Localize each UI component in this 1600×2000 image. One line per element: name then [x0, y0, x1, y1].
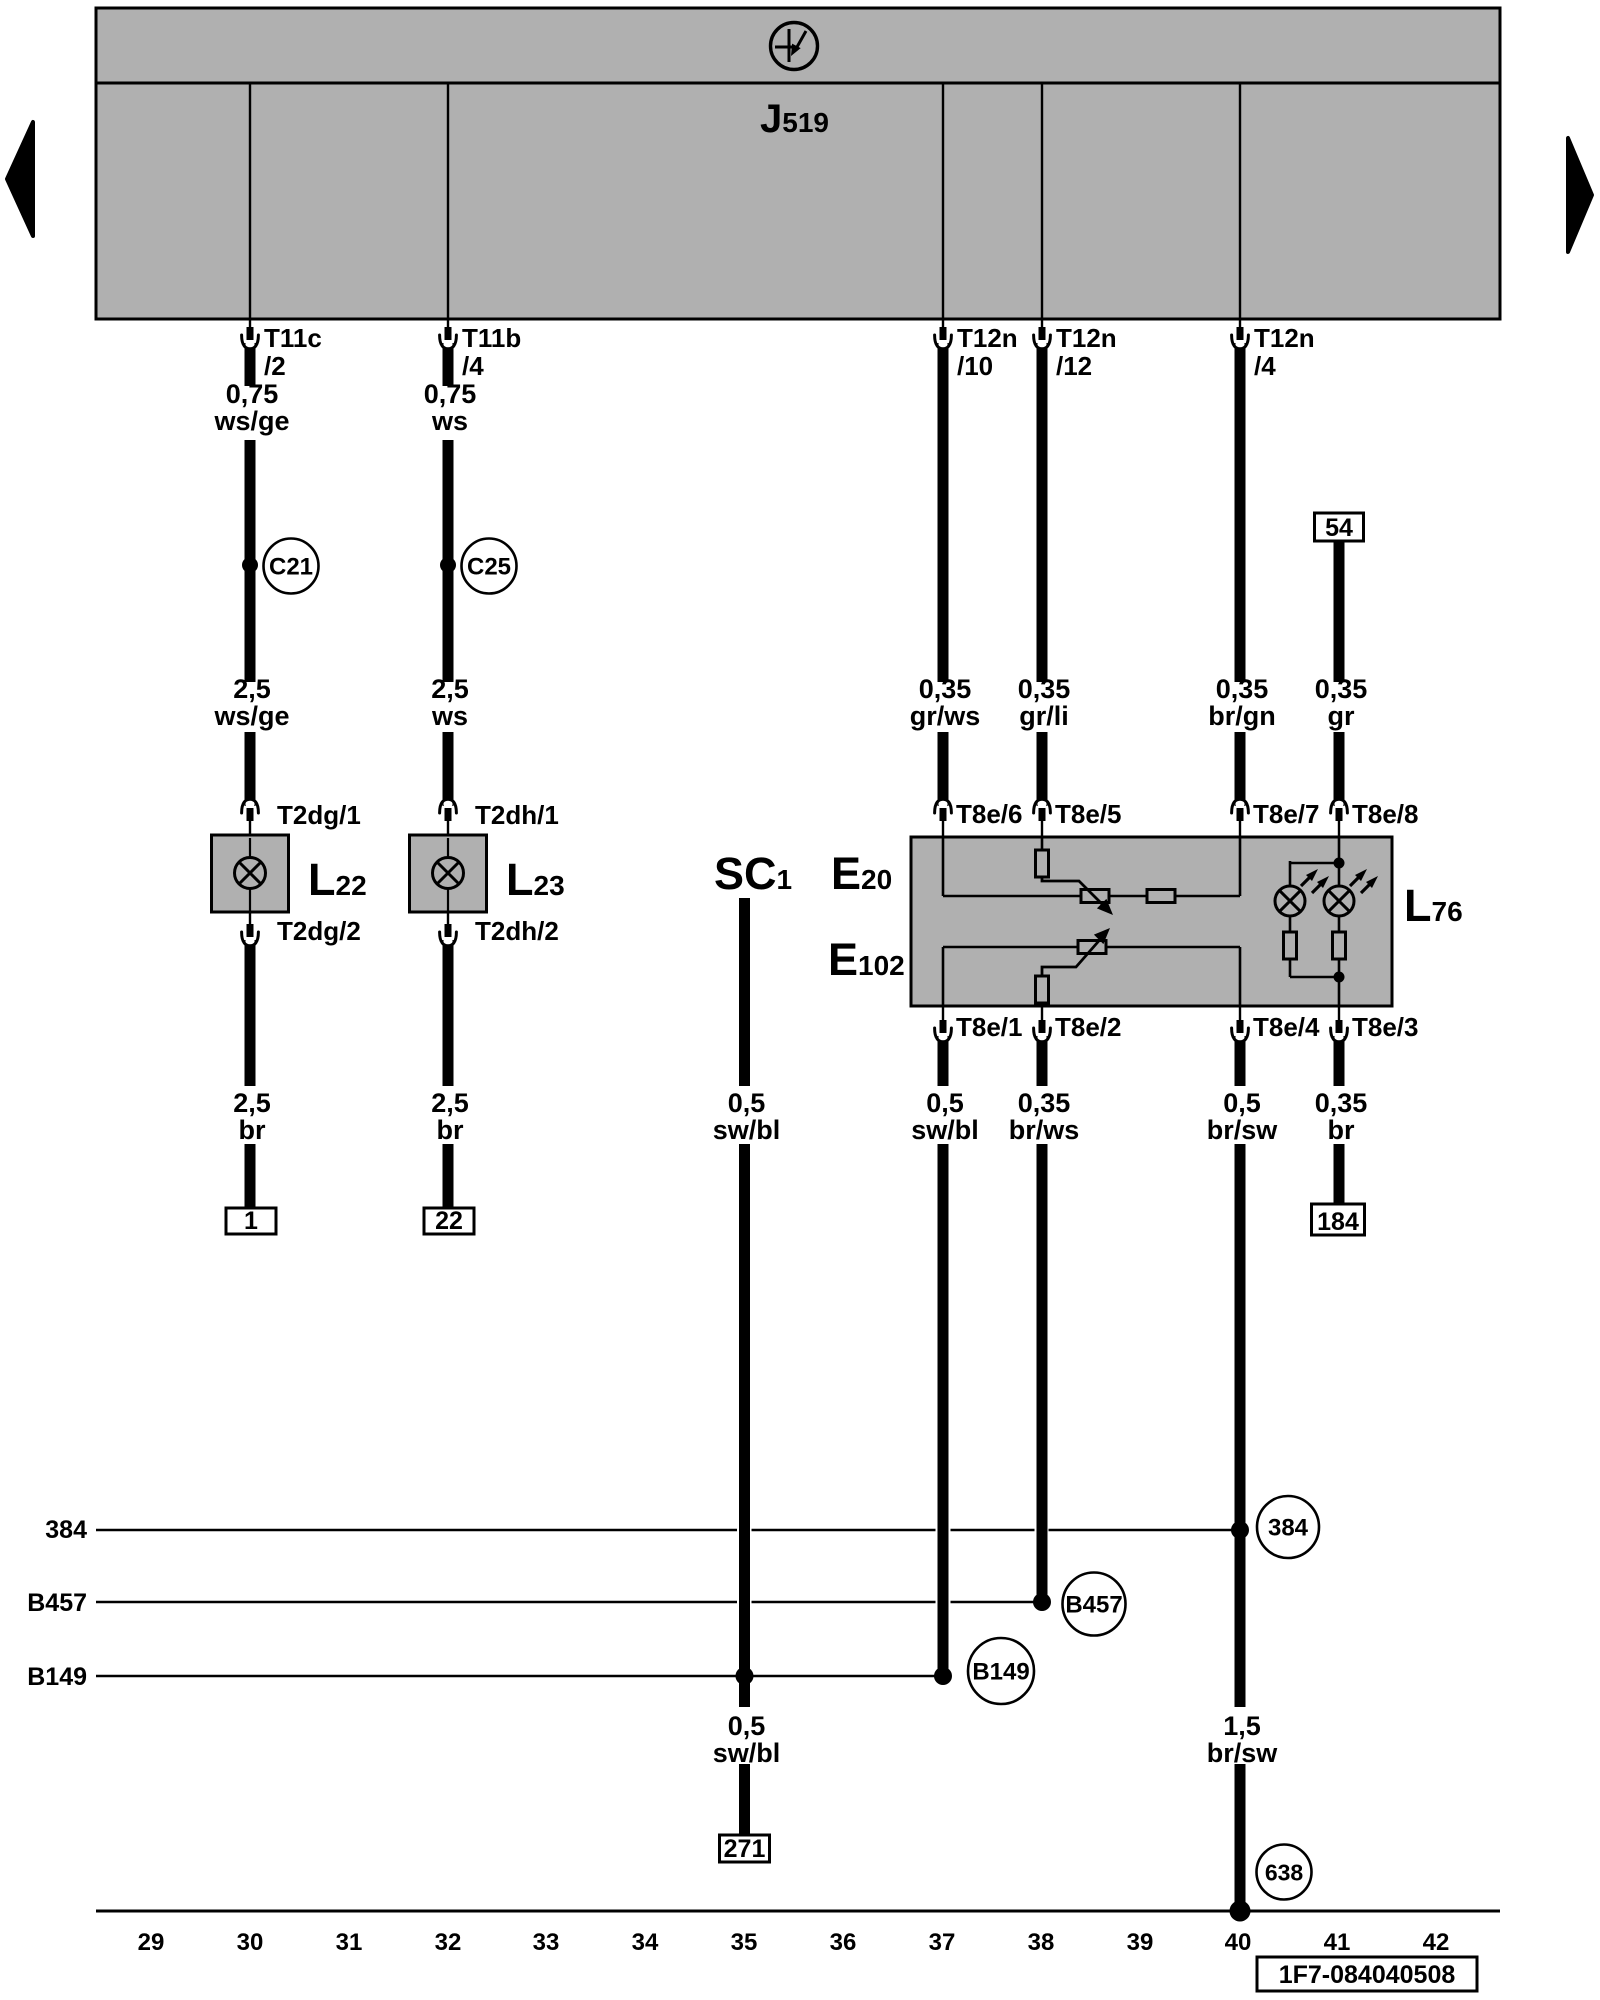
- net circle 384: [1257, 1496, 1319, 1558]
- svg-text:0,35: 0,35: [919, 674, 972, 704]
- potentiometer track E102: [1078, 941, 1106, 954]
- svg-text:30: 30: [237, 1929, 264, 1956]
- resistor E20 series: [1147, 890, 1175, 903]
- svg-text:C25: C25: [467, 554, 511, 581]
- wiper arm E20: [1042, 877, 1107, 909]
- svg-text:gr: gr: [1328, 701, 1355, 731]
- lead into L22: [249, 819, 251, 838]
- wire br col41 to ground: [1334, 1144, 1345, 1204]
- wire label 2,5 br col32: [431, 1088, 469, 1145]
- wire br col32: [443, 940, 454, 1086]
- svg-text:0,5: 0,5: [728, 1711, 766, 1741]
- wire label 0,5 sw/bl col35: [713, 1088, 781, 1145]
- junction net B457: [1033, 1593, 1051, 1611]
- connector T8e/8: [1331, 799, 1348, 821]
- lead from L23 to pin: [447, 912, 449, 926]
- svg-text:ws/ge: ws/ge: [213, 406, 289, 436]
- wire label 2,5 ws: [431, 674, 469, 731]
- wire sw/bl col37 lower: [938, 1144, 949, 1676]
- svg-text:0,35: 0,35: [1018, 674, 1071, 704]
- svg-text:0,5: 0,5: [728, 1088, 766, 1118]
- J519 pin line col40: [1239, 83, 1241, 330]
- ground terminal 271: [720, 1835, 770, 1863]
- J519 pin line col37: [942, 83, 944, 330]
- wire br col30: [245, 940, 256, 1086]
- svg-text:0,75: 0,75: [226, 379, 279, 409]
- junction net B149 col35: [736, 1667, 754, 1685]
- svg-text:0,75: 0,75: [424, 379, 477, 409]
- svg-text:1,5: 1,5: [1223, 1711, 1261, 1741]
- svg-text:22: 22: [435, 1207, 463, 1235]
- connector T8e/4: [1232, 1020, 1249, 1042]
- L76 lead from T8e/8: [1338, 838, 1341, 863]
- wiper lead from T8e/2: [1041, 1003, 1044, 1006]
- svg-text:br: br: [239, 1115, 266, 1145]
- L76 left bottom lead: [1289, 959, 1292, 977]
- junction C25: [440, 557, 456, 573]
- connector T11b/4: [440, 327, 457, 349]
- svg-text:29: 29: [138, 1929, 165, 1956]
- lead T8e/7 into switch box: [1239, 819, 1241, 838]
- lamp symbol L76 left: [1275, 886, 1305, 916]
- svg-text:/12: /12: [1056, 351, 1092, 381]
- LED arrows left lamp: [1301, 869, 1329, 893]
- svg-text:T8e/2: T8e/2: [1055, 1012, 1122, 1042]
- wire br col32 to ground: [443, 1144, 454, 1208]
- connector T2dg/1: [242, 799, 259, 821]
- wire label 0,5 sw/bl col35 lower: [713, 1711, 781, 1768]
- svg-text:sw/bl: sw/bl: [911, 1115, 979, 1145]
- E20 net lead from T8e/7: [1239, 838, 1242, 896]
- svg-text:384: 384: [45, 1516, 87, 1544]
- wire sw/bl col35 mid: [739, 1144, 750, 1707]
- svg-text:T2dh/2: T2dh/2: [475, 916, 559, 946]
- connector T8e/3: [1331, 1020, 1348, 1042]
- connector T8e/6: [935, 799, 952, 821]
- net circle 638: [1257, 1845, 1312, 1900]
- wire label 0,75 ws/ge: [213, 379, 289, 436]
- bus symbol (circled K): [771, 23, 818, 70]
- ruler scale numbers: [138, 1929, 1450, 1956]
- resistor L76 right: [1333, 932, 1346, 959]
- svg-text:ws/ge: ws/ge: [213, 701, 289, 731]
- svg-text:T8e/8: T8e/8: [1352, 799, 1419, 829]
- svg-text:T12n: T12n: [957, 323, 1018, 353]
- switch module box E20/E102/L76: [911, 837, 1392, 1006]
- svg-text:0,5: 0,5: [926, 1088, 964, 1118]
- lead T8e/6 into switch box: [942, 819, 944, 838]
- svg-text:39: 39: [1127, 1929, 1154, 1956]
- L76 bottom bridge: [1290, 976, 1339, 979]
- lamp symbol L76 right: [1324, 886, 1354, 916]
- svg-text:638: 638: [1265, 1860, 1304, 1886]
- wire label 0,35 gr/ws: [910, 674, 981, 731]
- lead to lamp L22: [249, 838, 251, 858]
- wire label 0,35 br/gn: [1208, 674, 1276, 731]
- svg-text:2,5: 2,5: [431, 1088, 469, 1118]
- connector circle C25: [462, 539, 517, 594]
- connector T12n col40: [1232, 327, 1249, 349]
- J519 inner divider line: [96, 82, 1500, 85]
- left direction arrow: [7, 122, 33, 236]
- lamp symbol L22: [235, 858, 266, 889]
- svg-text:br/sw: br/sw: [1207, 1115, 1279, 1145]
- svg-text:31: 31: [336, 1929, 363, 1956]
- net circle B149: [968, 1638, 1034, 1704]
- wire br/ws col38 lower: [1037, 1144, 1048, 1602]
- svg-text:/4: /4: [1254, 351, 1276, 381]
- svg-text:38: 38: [1028, 1929, 1055, 1956]
- wire sw/bl col37 upper: [938, 1036, 949, 1086]
- svg-text:2,5: 2,5: [233, 674, 271, 704]
- wire label 0,35 gr/li: [1018, 674, 1071, 731]
- lead T8e/5 into switch box: [1041, 819, 1043, 838]
- svg-text:B149: B149: [27, 1663, 87, 1691]
- svg-text:384: 384: [1268, 1515, 1309, 1542]
- lead T8e/3 out of switch box: [1338, 1006, 1340, 1022]
- svg-text:B149: B149: [972, 1659, 1029, 1686]
- terminal 54 box: [1315, 513, 1364, 542]
- E102 net horizontal: [943, 946, 1078, 949]
- connector T8e/5: [1034, 799, 1051, 821]
- junction rail col40: [1230, 1901, 1251, 1922]
- wire ws col32 upper: [443, 343, 454, 386]
- resistor L76 left: [1284, 932, 1297, 959]
- J519 pin line col30: [249, 83, 251, 330]
- svg-text:32: 32: [435, 1929, 462, 1956]
- ground terminal 22: [424, 1207, 474, 1235]
- wire label 0,75 ws: [424, 379, 477, 436]
- wire ws/ge col30 upper: [245, 343, 256, 386]
- svg-text:T8e/3: T8e/3: [1352, 1012, 1419, 1042]
- connector T12n col37: [935, 327, 952, 349]
- wire gr/li to E-box: [1037, 732, 1048, 806]
- svg-text:T2dg/1: T2dg/1: [277, 800, 361, 830]
- L76 top bridge: [1290, 862, 1339, 865]
- wiper arm E102: [1042, 935, 1104, 976]
- net B457 line: [96, 1601, 737, 1603]
- lamp symbol L23: [433, 858, 464, 889]
- wire sw/bl col35 to ground: [739, 1764, 750, 1835]
- lead T8e/8 into switch box: [1338, 819, 1340, 838]
- connector T12n col38: [1034, 327, 1051, 349]
- svg-text:36: 36: [830, 1929, 857, 1956]
- wire gr col41 to E-box: [1334, 732, 1345, 806]
- svg-text:T12n: T12n: [1056, 323, 1117, 353]
- wire label 0,35 br/ws: [1009, 1088, 1080, 1145]
- E20 net lead from T8e/6: [942, 838, 945, 896]
- wiper lead from T8e/5: [1041, 838, 1044, 850]
- wire label 0,35 gr: [1315, 674, 1368, 731]
- svg-text:40: 40: [1225, 1929, 1252, 1956]
- svg-text:1: 1: [244, 1207, 258, 1235]
- wire label 0,5 sw/bl col37: [911, 1088, 979, 1145]
- wire br col41 upper: [1334, 1036, 1345, 1086]
- junction net B149 col37: [934, 1667, 952, 1685]
- connector T2dh/1: [440, 799, 457, 821]
- right direction arrow: [1568, 138, 1592, 252]
- wire ws/ge col30 lower: [245, 732, 256, 806]
- E102 net lead to T8e/4: [1239, 947, 1242, 1006]
- svg-text:35: 35: [731, 1929, 758, 1956]
- svg-text:T2dh/1: T2dh/1: [475, 800, 559, 830]
- svg-text:T12n: T12n: [1254, 323, 1315, 353]
- resistor on T8e/2 wiper: [1036, 976, 1049, 1003]
- LED arrows right lamp: [1350, 869, 1378, 893]
- connector T8e/1: [935, 1020, 952, 1042]
- wire br/gn to E-box: [1235, 732, 1246, 806]
- svg-text:br/gn: br/gn: [1208, 701, 1276, 731]
- L76 right resistor lead: [1338, 916, 1341, 932]
- svg-text:37: 37: [929, 1929, 956, 1956]
- lamp L22 box: [212, 835, 289, 912]
- junction net 384: [1231, 1521, 1249, 1539]
- wire label 0,35 br: [1315, 1088, 1368, 1145]
- connector T11c/2: [242, 327, 259, 349]
- wire label 2,5 br: [233, 1088, 271, 1145]
- svg-text:41: 41: [1324, 1929, 1351, 1956]
- lead T8e/1 out of switch box: [942, 1006, 944, 1022]
- ground terminal 184: [1312, 1204, 1365, 1236]
- L76 left lamp lead: [1289, 861, 1292, 886]
- connector T8e/2: [1034, 1020, 1051, 1042]
- lead T8e/4 out of switch box: [1239, 1006, 1241, 1022]
- svg-text:184: 184: [1317, 1208, 1359, 1236]
- svg-text:B457: B457: [1065, 1592, 1122, 1619]
- svg-text:/10: /10: [957, 351, 993, 381]
- lead from L22 to pin: [249, 912, 251, 926]
- connector T8e/7: [1232, 799, 1249, 821]
- lead from lamp L23: [447, 888, 449, 912]
- bottom current rail: [96, 1910, 1500, 1913]
- wire ws/ge col30 mid: [245, 440, 256, 682]
- potentiometer track E20: [1081, 890, 1109, 903]
- svg-text:B457: B457: [27, 1589, 87, 1617]
- wire br/sw col40 upper: [1235, 1036, 1246, 1086]
- wire br/sw col40 mid: [1235, 1144, 1246, 1707]
- L76 lead to T8e/3: [1338, 977, 1341, 1006]
- svg-text:br/sw: br/sw: [1207, 1738, 1279, 1768]
- svg-text:ws: ws: [431, 701, 468, 731]
- E20 net to resistor: [1109, 895, 1147, 898]
- svg-text:2,5: 2,5: [233, 1088, 271, 1118]
- wire label 2,5 ws/ge: [213, 674, 289, 731]
- svg-text:54: 54: [1325, 514, 1353, 542]
- ground terminal 1: [226, 1207, 276, 1235]
- svg-text:T11c: T11c: [264, 323, 322, 353]
- net B149 line: [96, 1675, 943, 1677]
- wire br col30 to ground: [245, 1144, 256, 1208]
- svg-text:C21: C21: [269, 554, 313, 581]
- svg-text:33: 33: [533, 1929, 560, 1956]
- net circle B457: [1063, 1573, 1126, 1636]
- control unit J519 box: [96, 8, 1500, 319]
- E102 net lead to T8e/1: [942, 947, 945, 1006]
- wire sw/bl col35 upper: [739, 898, 750, 1086]
- connector circle C21: [264, 539, 319, 594]
- svg-text:gr/ws: gr/ws: [910, 701, 981, 731]
- lead to lamp L23: [447, 838, 449, 858]
- J519 pin line col32: [447, 83, 449, 330]
- svg-text:T8e/4: T8e/4: [1253, 1012, 1320, 1042]
- svg-text:271: 271: [724, 1835, 766, 1863]
- L76 right bottom lead: [1338, 959, 1341, 977]
- L76 bottom junction: [1334, 972, 1345, 983]
- svg-text:br/ws: br/ws: [1009, 1115, 1080, 1145]
- svg-text:34: 34: [632, 1929, 659, 1956]
- wire gr/li upper: [1037, 343, 1048, 682]
- svg-text:sw/bl: sw/bl: [713, 1738, 781, 1768]
- diagram id box: [1257, 1957, 1477, 1991]
- svg-text:sw/bl: sw/bl: [713, 1115, 781, 1145]
- L76 left resistor lead: [1289, 916, 1292, 932]
- svg-text:gr/li: gr/li: [1019, 701, 1069, 731]
- L76 top junction: [1334, 858, 1345, 869]
- lead from lamp L22: [249, 888, 251, 912]
- lead into L23: [447, 819, 449, 838]
- E20 net horizontal: [943, 895, 1081, 898]
- svg-text:0,35: 0,35: [1018, 1088, 1071, 1118]
- svg-text:/2: /2: [264, 351, 286, 381]
- connector T2dh/2: [440, 924, 457, 946]
- junction C21: [242, 557, 258, 573]
- net 384 line: [96, 1529, 737, 1531]
- L76 right lamp lead: [1338, 863, 1341, 886]
- E102 net to T8e/4: [1106, 946, 1240, 949]
- svg-text:T8e/5: T8e/5: [1055, 799, 1122, 829]
- svg-text:ws: ws: [431, 406, 468, 436]
- wire label 1,5 br/sw: [1207, 1711, 1279, 1768]
- E20 net to T8e/7: [1175, 895, 1240, 898]
- wire gr/ws upper: [938, 343, 949, 682]
- wire ws col32 mid: [443, 440, 454, 682]
- svg-text:T8e/1: T8e/1: [956, 1012, 1023, 1042]
- svg-text:br: br: [437, 1115, 464, 1145]
- svg-text:T2dg/2: T2dg/2: [277, 916, 361, 946]
- svg-text:0,35: 0,35: [1315, 1088, 1368, 1118]
- svg-text:/4: /4: [462, 351, 484, 381]
- svg-text:42: 42: [1423, 1929, 1450, 1956]
- wire gr col41 upper: [1334, 541, 1345, 682]
- svg-text:0,5: 0,5: [1223, 1088, 1261, 1118]
- connector T2dg/2: [242, 924, 259, 946]
- J519 pin line col38: [1041, 83, 1043, 330]
- wire gr/ws to E-box: [938, 732, 949, 806]
- svg-text:T8e/7: T8e/7: [1253, 799, 1320, 829]
- svg-text:2,5: 2,5: [431, 674, 469, 704]
- svg-text:br: br: [1328, 1115, 1355, 1145]
- wire br/gn upper: [1235, 343, 1246, 682]
- svg-text:T11b: T11b: [462, 323, 521, 353]
- resistor on T8e/5 wiper: [1036, 850, 1049, 877]
- wire br/ws col38 upper: [1037, 1036, 1048, 1086]
- wire label 0,5 br/sw: [1207, 1088, 1279, 1145]
- wire br/sw col40 to rail: [1235, 1764, 1246, 1911]
- svg-text:T8e/6: T8e/6: [956, 799, 1023, 829]
- svg-text:0,35: 0,35: [1315, 674, 1368, 704]
- wire ws col32 lower: [443, 732, 454, 806]
- svg-text:1F7-084040508: 1F7-084040508: [1279, 1961, 1456, 1989]
- lead T8e/2 out of switch box: [1041, 1006, 1043, 1022]
- lamp L23 box: [410, 835, 487, 912]
- svg-text:0,35: 0,35: [1216, 674, 1269, 704]
